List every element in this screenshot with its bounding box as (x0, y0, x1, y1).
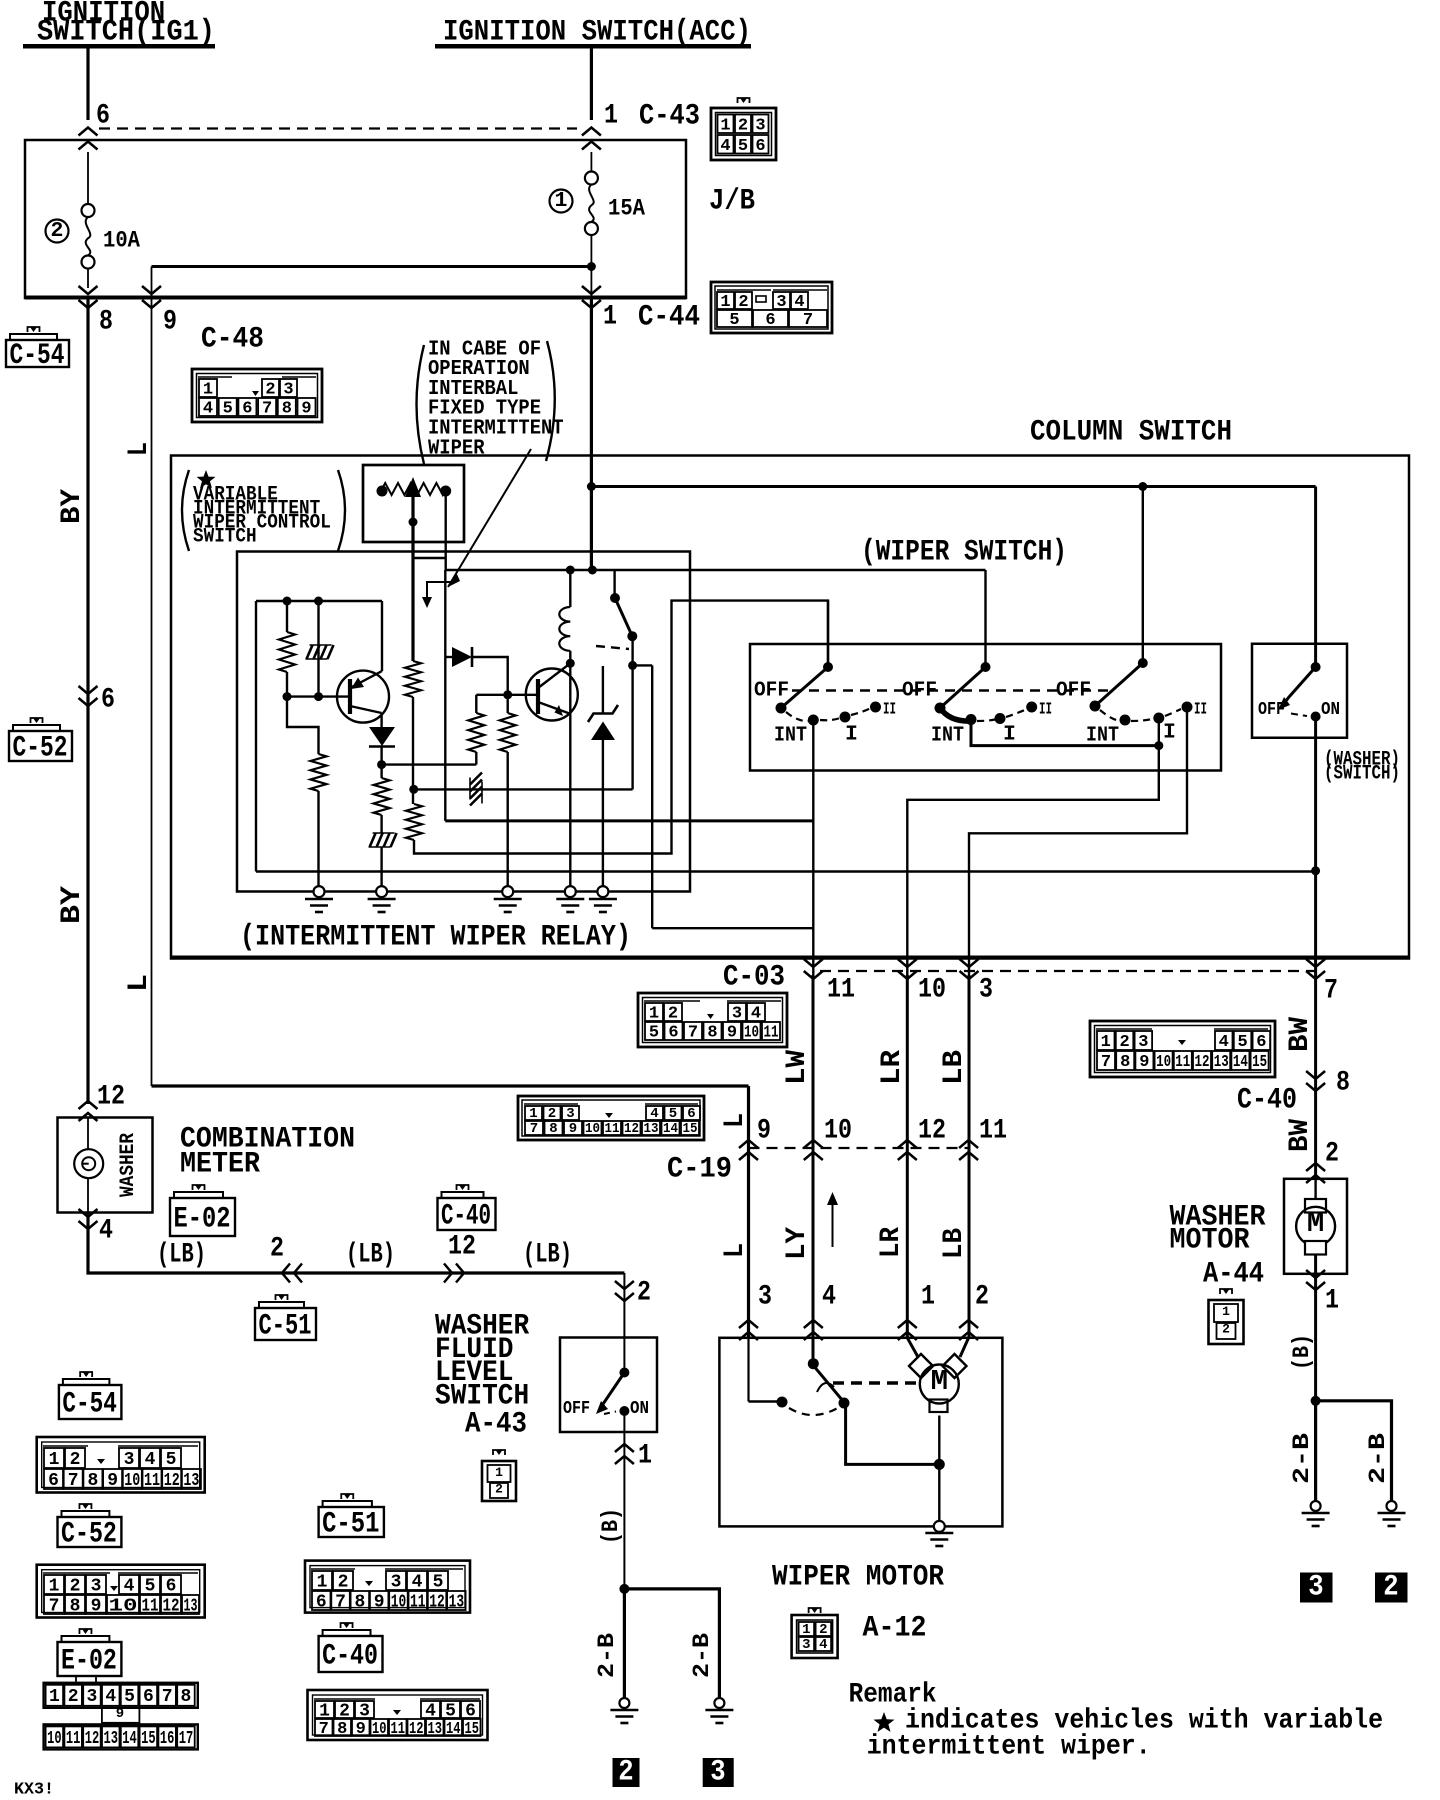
wire section3 I contact down and across (907, 718, 1159, 975)
svg-text:11: 11 (764, 1024, 779, 1043)
svg-text:5: 5 (166, 1450, 177, 1470)
section3 OFF contact dot (1090, 701, 1101, 712)
diode D2 (446, 647, 472, 667)
svg-text:II: II (1194, 701, 1207, 720)
wire IG1 feed down (86, 48, 89, 120)
svg-text:7: 7 (162, 1687, 173, 1707)
svg-text:1: 1 (49, 1687, 60, 1707)
washer switch arm arrowhead (1278, 697, 1290, 710)
svg-text:2: 2 (70, 1576, 81, 1596)
connector C-51 pinout (305, 1561, 470, 1613)
svg-text:3: 3 (732, 1005, 742, 1024)
svg-text:5: 5 (433, 1572, 444, 1592)
wire washer switch output down (1314, 717, 1317, 1179)
svg-text:6: 6 (755, 137, 765, 156)
svg-text:6: 6 (1256, 1033, 1266, 1052)
connector crossing arrows C-40 pin 12 (456, 1264, 464, 1283)
section2 I contact dot (995, 713, 1006, 724)
wiper switch section2 pivot feed (984, 570, 986, 667)
wiper switch OFF dashed line (792, 689, 1113, 691)
svg-text:OFF: OFF (563, 1399, 590, 1419)
svg-text:2: 2 (618, 1756, 633, 1790)
section3 I contact dot (1153, 713, 1164, 724)
svg-text:BW: BW (1285, 1119, 1316, 1152)
svg-text:(WIPER SWITCH): (WIPER SWITCH) (861, 536, 1067, 570)
svg-text:2: 2 (738, 116, 748, 135)
junction dot motor ground (934, 1459, 945, 1470)
ground reference box 2 (613, 1758, 640, 1787)
connector C-44 icon (711, 282, 832, 333)
washer fluid switch dashed contact (604, 1412, 616, 1415)
junction dot ground branch (619, 1584, 629, 1594)
wiper switch section2 arm (940, 667, 986, 708)
connector arrows C-40 pin 7 (1306, 971, 1325, 979)
svg-text:2: 2 (1325, 1138, 1339, 1169)
svg-text:1: 1 (555, 189, 568, 213)
svg-text:12: 12 (429, 1592, 445, 1612)
ground symbol wiper motor (925, 1532, 953, 1535)
svg-text:INT: INT (1086, 723, 1119, 747)
connector C-48 icon (192, 369, 322, 422)
ground reference box 2 (washer) (1375, 1573, 1408, 1603)
svg-text:WIPER MOTOR: WIPER MOTOR (772, 1561, 944, 1595)
washer fluid switch arm arrowhead (596, 1401, 608, 1414)
note pointer arrowhead (448, 572, 460, 587)
wire relay output horizontal y=928 (652, 927, 813, 929)
svg-text:8: 8 (99, 306, 113, 337)
wire timing node down (412, 697, 414, 804)
svg-text:C-40: C-40 (322, 1639, 378, 1673)
resistor R4 discharge (380, 765, 382, 778)
wire LR into left diamond (907, 1338, 918, 1357)
diode D1 (369, 727, 395, 747)
svg-text:A-12: A-12 (863, 1612, 927, 1646)
resistor R6 base-emitter of Q2 (507, 695, 509, 713)
svg-text:C-40: C-40 (441, 1199, 491, 1233)
svg-text:1: 1 (495, 1465, 503, 1480)
svg-text:10: 10 (918, 974, 946, 1005)
connector arrows out of J/B pin 9 (142, 300, 161, 308)
washer fluid switch pivot dot (619, 1368, 629, 1378)
svg-text:9: 9 (356, 1720, 366, 1739)
svg-text:C-52: C-52 (13, 731, 68, 765)
svg-text:1: 1 (921, 1281, 935, 1312)
svg-text:OFF: OFF (1056, 678, 1091, 702)
washer switch pivot dot (1311, 662, 1321, 672)
svg-text:3: 3 (566, 1106, 574, 1122)
svg-text:8: 8 (707, 1024, 717, 1043)
connector C-19 icon (518, 1096, 704, 1140)
ground symbol washer left (1302, 1512, 1330, 1515)
svg-text:8: 8 (354, 1592, 365, 1612)
svg-text:(B): (B) (1289, 1334, 1315, 1370)
relay armature pivot feed (613, 570, 615, 594)
svg-text:2-B: 2-B (594, 1633, 620, 1678)
wire LB into right diamond (960, 1338, 969, 1357)
svg-text:C-19: C-19 (667, 1153, 732, 1187)
ground terminal circle washer left (1311, 1501, 1321, 1511)
section2 II contact dot (1026, 702, 1037, 713)
wire LB pin3 to C-19 pin11 (968, 975, 971, 1338)
svg-text:9: 9 (569, 1121, 577, 1137)
wire washer switch feed (1314, 487, 1317, 668)
svg-text:C-52: C-52 (61, 1517, 117, 1551)
wire coil/Q2 emitter to ground (569, 663, 571, 886)
variable element with hatch mark (317, 601, 319, 697)
wiper motor speed select junction dot (808, 1358, 819, 1369)
connector C-51 label icon (255, 1308, 316, 1340)
wire wiper motor low-speed input (749, 1400, 778, 1402)
svg-text:14: 14 (663, 1121, 678, 1137)
combination meter box (58, 1118, 153, 1213)
connector arrows C-19 pin 10 (804, 1140, 823, 1148)
svg-text:12: 12 (409, 1720, 424, 1739)
svg-text:6: 6 (242, 400, 252, 419)
svg-text:14: 14 (1233, 1053, 1248, 1072)
wiper motor park switch arm (813, 1365, 843, 1401)
connector arrows combination meter pin 4 (79, 1221, 98, 1229)
wire ground branch right (washer motor) (1316, 1401, 1392, 1501)
svg-text:4: 4 (720, 137, 730, 156)
svg-text:BY: BY (57, 886, 88, 924)
connector C-54 pinout (37, 1437, 205, 1493)
wiper switch section2 pivot dot (981, 662, 991, 672)
svg-text:2: 2 (1119, 1033, 1129, 1052)
svg-text:6: 6 (143, 1687, 154, 1707)
wiper switch section3 pivot feed (1142, 487, 1144, 664)
ground terminal circle washer right (1387, 1501, 1397, 1511)
svg-text:6: 6 (668, 1024, 678, 1043)
ground symbol under relay 4 (556, 898, 584, 901)
wire ground branch left (washer motor) (1314, 1401, 1317, 1501)
svg-text:8: 8 (549, 1121, 557, 1137)
svg-text:6: 6 (765, 311, 775, 330)
svg-text:11: 11 (142, 1596, 159, 1616)
svg-text:3: 3 (979, 974, 993, 1005)
svg-text:3: 3 (391, 1572, 402, 1592)
svg-text:3: 3 (1308, 1571, 1323, 1605)
svg-text:A-44: A-44 (1203, 1258, 1264, 1292)
svg-text:10: 10 (124, 1471, 140, 1491)
ground symbol washer right (1378, 1512, 1406, 1515)
wire ACC feed to wiper switch and washer switch (591, 485, 1315, 488)
svg-text:BW: BW (1285, 1017, 1316, 1052)
resistor R3 base divider (287, 697, 319, 754)
svg-text:3: 3 (710, 1756, 725, 1790)
junction dot at section3 pivot feed (1138, 482, 1147, 491)
connector arrows C-19 pin 9 (739, 1140, 758, 1148)
svg-text:1: 1 (1101, 1033, 1111, 1052)
svg-text:10: 10 (1156, 1053, 1171, 1072)
svg-text:13: 13 (183, 1471, 199, 1491)
hatch mark on feedback resistor (470, 773, 482, 785)
svg-text:3: 3 (283, 381, 293, 400)
ground symbol under relay 5 (589, 898, 617, 901)
note star VARIABLE INTERMITTENT WIPER CONTROL SWITCH (182, 470, 345, 551)
svg-text:1: 1 (49, 1450, 60, 1470)
connector E-02 label icon (bottom) (58, 1642, 122, 1676)
direction arrow on LY wire (832, 1199, 834, 1247)
svg-text:ON: ON (1321, 700, 1340, 720)
connector arrows C-03 pin 10 (898, 971, 917, 979)
connector arrows washer motor pin 1 (1306, 1282, 1325, 1290)
junction dots on top rail (283, 597, 292, 606)
svg-text:15: 15 (141, 1729, 156, 1749)
connector arrows out of J/B pin 8 (79, 300, 98, 308)
svg-text:8: 8 (337, 1720, 347, 1739)
transistor Q2 (526, 663, 578, 720)
svg-text:(B): (B) (598, 1508, 624, 1544)
svg-text:9: 9 (91, 1596, 102, 1616)
svg-text:5: 5 (223, 400, 233, 419)
svg-text:OFF: OFF (754, 678, 789, 702)
svg-text:15: 15 (465, 1720, 480, 1739)
junction dot coil top (566, 566, 575, 575)
svg-text:14: 14 (122, 1729, 137, 1749)
wiper switch section3 pivot dot (1138, 658, 1148, 668)
svg-text:BY: BY (57, 489, 88, 524)
wire pot right terminal down (445, 491, 447, 570)
relay circuit top rail (256, 600, 382, 602)
svg-text:LR: LR (877, 1050, 908, 1085)
svg-text:6: 6 (316, 1592, 327, 1612)
ground symbol right (705, 1709, 733, 1712)
connector C-40 pinout (bottom) (308, 1690, 488, 1740)
fuse 2 (10A) (87, 152, 89, 205)
svg-text:C-03: C-03 (723, 961, 785, 995)
park switch contact dot (839, 1398, 850, 1409)
connector arrow into J/B pin 6 (79, 128, 98, 136)
washer motor brush top (1305, 1199, 1326, 1213)
svg-text:A-43: A-43 (465, 1408, 527, 1442)
svg-text:C-51: C-51 (259, 1309, 312, 1343)
svg-text:16: 16 (160, 1729, 175, 1749)
resistor R7 on drive node (476, 694, 507, 696)
svg-text:C-54: C-54 (62, 1387, 117, 1421)
svg-text:7: 7 (335, 1592, 346, 1612)
svg-text:6: 6 (166, 1576, 177, 1596)
relay coil (569, 570, 571, 607)
svg-text:INT: INT (774, 723, 807, 747)
svg-text:5: 5 (738, 137, 748, 156)
svg-text:7: 7 (49, 1596, 60, 1616)
svg-text:E-02: E-02 (174, 1202, 231, 1236)
connector C-52 label icon (9, 731, 72, 761)
svg-text:2: 2 (1383, 1571, 1398, 1605)
svg-text:9: 9 (163, 306, 177, 337)
svg-text:12: 12 (164, 1471, 180, 1491)
connector arrows combination meter pin 12 (79, 1101, 98, 1109)
relay mechanical link dashed (596, 646, 629, 649)
svg-text:6: 6 (96, 100, 110, 131)
svg-text:10: 10 (47, 1729, 62, 1749)
connector C-43 icon (711, 98, 776, 160)
wire stub wiper-to-right-rail (413, 557, 446, 559)
wire relay contact down (631, 636, 633, 789)
wire R5 to switch common rail (414, 601, 828, 854)
svg-text:4: 4 (105, 1687, 116, 1707)
svg-text:2: 2 (668, 1005, 678, 1024)
zener diode ZD1 (588, 666, 618, 886)
wire relay ground-side rail y=871.5 to washer switch line (256, 870, 1316, 872)
potentiometer resistor (382, 483, 446, 495)
connector C-54 label icon (6, 340, 69, 367)
junction block J/B box (25, 140, 686, 298)
svg-text:1: 1 (203, 381, 213, 400)
svg-text:M: M (1307, 1207, 1324, 1240)
washer fluid switch ON dot (619, 1406, 629, 1416)
wire pot wiper R2 resistor (405, 661, 421, 697)
svg-text:E-02: E-02 (61, 1644, 117, 1678)
svg-text:2: 2 (637, 1277, 651, 1308)
svg-text:KX3!: KX3! (14, 1781, 54, 1800)
svg-text:2: 2 (70, 1450, 81, 1470)
wiper switch section1 pivot feed (827, 601, 829, 667)
washer switch ON contact dot (1311, 712, 1321, 722)
connector C-40 label icon (438, 1198, 496, 1230)
relay left rail down (255, 601, 257, 872)
svg-text:2: 2 (338, 1572, 349, 1592)
svg-text:I: I (1003, 722, 1016, 746)
svg-text:14: 14 (446, 1720, 461, 1739)
section1 dashed contact arc (786, 712, 809, 721)
connector E-02 pinout (44, 1676, 198, 1749)
svg-text:4: 4 (99, 1215, 113, 1246)
svg-text:7: 7 (262, 400, 272, 419)
junction dot INT output (1154, 741, 1163, 750)
junction dot Q2 base node (503, 690, 512, 699)
svg-text:3: 3 (755, 116, 765, 135)
wire motor to ground (938, 1416, 940, 1522)
ground terminal circles on relay box bottom (314, 886, 325, 897)
svg-text:1: 1 (638, 1440, 652, 1471)
wire park contact to motor ground (846, 1402, 940, 1464)
svg-text:1: 1 (1325, 1285, 1339, 1316)
svg-text:10: 10 (585, 1121, 600, 1137)
svg-text:(LB): (LB) (523, 1239, 572, 1270)
washer motor M (1296, 1207, 1335, 1246)
svg-text:L: L (124, 442, 155, 456)
connector C-40 label icon (bottom) (319, 1636, 383, 1672)
connector C-51 label icon (bottom) (319, 1507, 384, 1537)
svg-text:5: 5 (145, 1576, 156, 1596)
section3 INT contact dot (1120, 715, 1131, 726)
junction dot D1 node (377, 760, 386, 769)
park switch hook symbol (817, 1383, 834, 1392)
svg-text:11: 11 (391, 1720, 406, 1739)
svg-text:1: 1 (1222, 1304, 1230, 1319)
connector arrows C-19 pin 12 (898, 1140, 917, 1148)
svg-text:13: 13 (1214, 1053, 1229, 1072)
svg-text:6: 6 (687, 1106, 695, 1122)
svg-text:4: 4 (822, 1281, 836, 1312)
connector arrows C-19 pin 11 (959, 1140, 978, 1148)
wire L from junction block down to wiper motor (152, 1084, 749, 1087)
svg-text:intermittent wiper.: intermittent wiper. (867, 1731, 1151, 1762)
svg-text:11: 11 (144, 1471, 160, 1491)
wire ACC segment down to y=570 (590, 487, 593, 571)
svg-text:11: 11 (1175, 1053, 1190, 1072)
fuse 1 (15A) (590, 152, 592, 172)
svg-text:LY: LY (782, 1227, 813, 1260)
svg-text:9: 9 (374, 1592, 385, 1612)
svg-text:COLUMN SWITCH: COLUMN SWITCH (1030, 416, 1232, 450)
section2 OFF contact dot (935, 703, 946, 714)
svg-text:INT: INT (931, 723, 964, 747)
svg-text:7: 7 (688, 1024, 698, 1043)
svg-text:9: 9 (1139, 1053, 1149, 1072)
connector arrows out of J/B pin 1 C-44 (582, 300, 601, 308)
svg-text:LW: LW (782, 1050, 813, 1085)
connector arrows C-03 pin 3 (960, 971, 979, 979)
svg-text:(LB): (LB) (346, 1239, 395, 1270)
section1 INT contact dot (808, 715, 819, 726)
svg-text:4: 4 (650, 1106, 658, 1122)
svg-text:5: 5 (649, 1024, 659, 1043)
note pointer line (448, 449, 531, 587)
ground symbol under relay 2 (368, 898, 396, 901)
svg-text:8: 8 (1120, 1053, 1130, 1072)
svg-text:1: 1 (649, 1005, 659, 1024)
connector E-02 label icon (170, 1198, 235, 1236)
washer motor box (1284, 1179, 1347, 1274)
svg-text:6: 6 (48, 1471, 59, 1491)
wire through meter (87, 1118, 89, 1150)
wire LW pin11 to C-19 pin10 (812, 975, 815, 1365)
wire section2 INT output (971, 720, 1159, 746)
relay box (intermittent wiper relay) (237, 552, 690, 892)
svg-text:L: L (720, 1243, 751, 1258)
svg-text:7: 7 (319, 1720, 329, 1739)
svg-text:2-B: 2-B (1289, 1433, 1315, 1484)
svg-text:MOTOR: MOTOR (1170, 1224, 1250, 1258)
svg-text:(LB): (LB) (157, 1239, 206, 1270)
svg-text:2: 2 (68, 1687, 79, 1707)
svg-text:3: 3 (124, 1450, 135, 1470)
wire D1 to node (380, 747, 382, 765)
svg-text:4: 4 (819, 1637, 827, 1653)
svg-text:WIPER: WIPER (428, 436, 485, 460)
wire L from J/B pin 9 down (151, 298, 153, 1086)
wiper switch section1 arm (781, 667, 828, 708)
svg-text:4: 4 (124, 1576, 135, 1596)
wire dashed connector C-43 boundary line (99, 127, 577, 129)
svg-text:2-B: 2-B (1365, 1433, 1391, 1484)
wire into washer fluid level switch (623, 1273, 625, 1373)
wire Q1 emitter up to top rail (381, 601, 383, 671)
wire Q2 base (508, 694, 538, 696)
wiper motor box (719, 1338, 1002, 1527)
connector crossing arrows C-51 pin 2 (282, 1264, 290, 1283)
wiper switch box (750, 644, 1221, 771)
washer switch box (1252, 644, 1347, 738)
wiper motor right terminal diamond (943, 1354, 967, 1378)
connector C-19 dashed line (749, 1147, 969, 1149)
wire LB from meter to washer fluid level switch (88, 1213, 624, 1274)
svg-text:L: L (124, 974, 155, 992)
wire into washer motor (1314, 1179, 1316, 1207)
svg-text:3: 3 (1138, 1033, 1148, 1052)
connector arrows wiper motor pin 2 (959, 1320, 978, 1328)
svg-text:2: 2 (51, 219, 64, 243)
column switch outer box (171, 456, 1409, 959)
svg-text:1: 1 (720, 116, 730, 135)
wire base network horizontal y=764.6 (382, 763, 477, 765)
svg-text:9: 9 (301, 400, 311, 419)
svg-text:4: 4 (751, 1005, 761, 1024)
note pointer elbow arrow (427, 582, 456, 602)
svg-text:3: 3 (87, 1687, 98, 1707)
